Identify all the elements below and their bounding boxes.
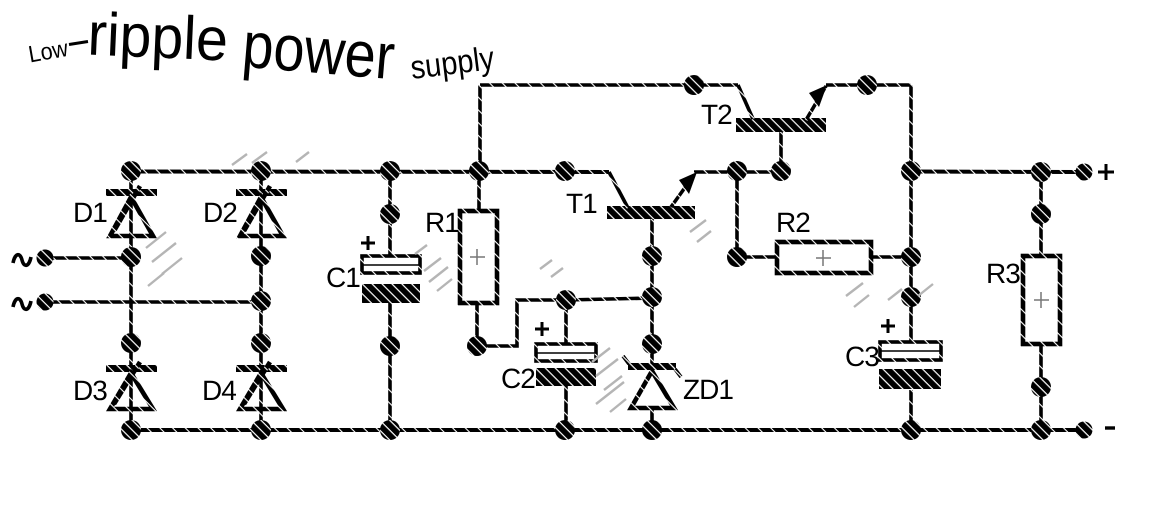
wire AC input 2 bbox=[50, 300, 261, 304]
svg-text:C2: C2 bbox=[501, 363, 535, 394]
wire ZD1 bottom lead bbox=[650, 408, 654, 430]
wire bottom rail bbox=[131, 428, 1078, 432]
capacitor C1 bbox=[361, 236, 420, 303]
wire main rail bbox=[131, 170, 609, 175]
svg-text:C1: C1 bbox=[326, 262, 360, 293]
diode D3 bbox=[106, 362, 157, 409]
wire AC input 1 bbox=[50, 256, 131, 260]
wire R2 left lead bbox=[737, 255, 777, 259]
wire C1 bottom lead bbox=[388, 303, 392, 430]
wire top rail right segment bbox=[826, 83, 911, 87]
wire corner down to R1 node bbox=[478, 85, 482, 171]
svg-text:T2: T2 bbox=[701, 99, 732, 130]
plus sign bbox=[1098, 164, 1114, 180]
wire C2 bottom lead bbox=[564, 386, 568, 430]
wire C3 top lead bbox=[909, 171, 913, 342]
wire R3 top lead bbox=[1039, 172, 1043, 256]
node R3 upper lead bbox=[1031, 204, 1051, 224]
wire bridge right column bbox=[259, 171, 263, 430]
node R1 rail bbox=[469, 161, 489, 181]
wire T1 emitter to T2 base rail bbox=[694, 170, 781, 174]
node T2 base junction bbox=[771, 161, 791, 181]
wire bridge left column bbox=[129, 171, 133, 430]
svg-text:R1: R1 bbox=[425, 207, 459, 238]
svg-text:ZD1: ZD1 bbox=[683, 374, 733, 405]
transistor T2 bbox=[736, 85, 827, 132]
resistor R1 bbox=[460, 211, 497, 303]
node ZD1 cathode bbox=[642, 334, 662, 354]
svg-text:D4: D4 bbox=[202, 375, 236, 406]
node R2 right bbox=[901, 247, 921, 267]
AC symbol 2 bbox=[13, 299, 31, 310]
node R1 bottom bbox=[467, 336, 487, 356]
node AC2 junction bbox=[251, 291, 271, 311]
svg-text:power: power bbox=[240, 8, 398, 93]
node D1 anode AC1 bbox=[121, 247, 141, 267]
node output rail left bbox=[901, 161, 921, 181]
svg-text:R3: R3 bbox=[986, 258, 1020, 289]
node top rail left bbox=[684, 75, 704, 95]
output terminal plus bbox=[1076, 164, 1093, 181]
wire R3 bottom lead bbox=[1039, 344, 1043, 430]
capacitor C2 bbox=[535, 322, 596, 386]
wire R2 right lead bbox=[871, 255, 911, 259]
transistor T1 bbox=[607, 172, 697, 219]
node bottom rail C1 bbox=[380, 420, 400, 440]
node T1 base filter junction bbox=[642, 287, 662, 307]
resistor R2 bbox=[777, 242, 871, 273]
node D3 cathode bbox=[121, 333, 141, 353]
output terminal minus bbox=[1076, 422, 1093, 439]
title text bbox=[26, 0, 496, 93]
wire R1 to C2 zigzag bbox=[477, 300, 566, 346]
node C1 rail bbox=[380, 161, 400, 181]
wire corner down to output rail bbox=[909, 85, 913, 171]
diode D1 bbox=[106, 186, 157, 236]
node bridge D2 top bbox=[251, 161, 271, 181]
node C2 top bbox=[556, 290, 576, 310]
capacitor C3 bbox=[879, 319, 941, 389]
minus sign bbox=[1105, 426, 1115, 429]
node top rail right bbox=[857, 75, 877, 95]
svg-text:ripple: ripple bbox=[86, 0, 229, 74]
node C1 lower lead bbox=[380, 336, 400, 356]
wire R1 bottom lead bbox=[475, 303, 479, 346]
wire R1 top lead bbox=[477, 171, 481, 211]
node bottom rail D4 bbox=[251, 420, 271, 440]
svg-text:R2: R2 bbox=[776, 207, 810, 238]
node C1 upper lead bbox=[380, 204, 400, 224]
node bottom rail C2 bbox=[555, 420, 575, 440]
wire top rail left segment bbox=[480, 83, 738, 87]
node T1 collector rail bbox=[555, 161, 575, 181]
node bottom rail ZD1 bbox=[642, 420, 662, 440]
AC input terminal 2 bbox=[37, 294, 54, 311]
node R3 top rail bbox=[1031, 162, 1051, 182]
node bottom rail R3 bbox=[1031, 420, 1051, 440]
svg-text:C3: C3 bbox=[845, 341, 879, 372]
wire T2 base lead bbox=[779, 132, 783, 171]
node D2 anode bbox=[251, 246, 271, 266]
wire output rail right bbox=[911, 170, 1078, 175]
svg-text:D2: D2 bbox=[203, 197, 237, 228]
faint sketch scribbles bbox=[146, 152, 933, 412]
node R2 left bbox=[727, 247, 747, 267]
title dash bbox=[69, 42, 88, 45]
svg-text:D1: D1 bbox=[73, 197, 107, 228]
wire C2 top lead bbox=[564, 300, 568, 344]
node R3 lower lead bbox=[1031, 377, 1051, 397]
svg-text:D3: D3 bbox=[73, 375, 107, 406]
diode D4 bbox=[236, 362, 287, 409]
diode D2 bbox=[236, 186, 287, 236]
node bottom rail D3 bbox=[121, 420, 141, 440]
node D4 cathode bbox=[251, 333, 271, 353]
zener diode ZD1 bbox=[623, 356, 681, 408]
node C3 upper bbox=[901, 287, 921, 307]
wire C1 top lead bbox=[388, 171, 392, 256]
wire T1 base column bbox=[650, 219, 654, 364]
resistor R3 bbox=[1023, 256, 1060, 344]
wire C3 bottom lead bbox=[909, 390, 913, 430]
node bottom rail C3 bbox=[901, 420, 921, 440]
wire C2 node to T1 base column bbox=[566, 298, 652, 300]
AC input terminal 1 bbox=[37, 250, 54, 267]
AC symbol 1 bbox=[13, 255, 31, 266]
svg-text:T1: T1 bbox=[566, 188, 597, 219]
node T1 emitter junction bbox=[727, 161, 747, 181]
node bridge D1 top bbox=[121, 161, 141, 181]
node T1 base upper bbox=[642, 246, 662, 266]
wire R2 left drop bbox=[735, 171, 739, 257]
